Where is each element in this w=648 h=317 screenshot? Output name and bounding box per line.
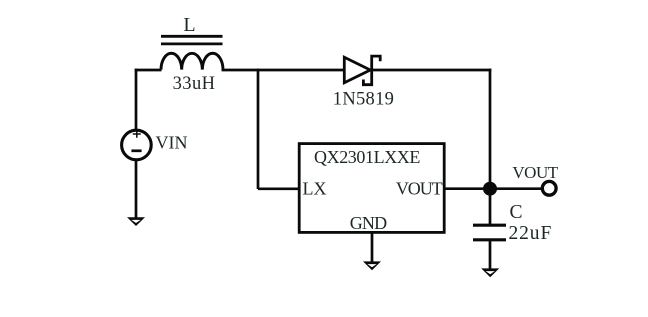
capacitor C bottom plate xyxy=(473,238,506,241)
capacitor C top plate xyxy=(473,224,506,227)
wire switch node vertical xyxy=(257,69,260,189)
diode D1 anode triangle xyxy=(344,57,370,83)
svg-text:33uH: 33uH xyxy=(173,74,216,94)
wire LX stub xyxy=(258,187,300,190)
IC U1 QX2301LXXE box xyxy=(299,144,444,233)
wire VOUT pin to output node xyxy=(444,187,542,190)
svg-text:22uF: 22uF xyxy=(509,223,553,244)
source V1 plus sign xyxy=(133,130,141,137)
diode D1 schottky cathode bar xyxy=(363,56,380,85)
svg-text:1N5819: 1N5819 xyxy=(333,89,394,109)
ground input xyxy=(127,217,145,226)
ground output xyxy=(481,268,499,277)
source V1 minus sign xyxy=(131,149,141,152)
svg-text:VOUT: VOUT xyxy=(396,178,443,198)
wire source to input ground xyxy=(135,160,138,219)
terminal VOUT circle xyxy=(542,181,556,195)
svg-text:VOUT: VOUT xyxy=(512,163,558,182)
svg-text:C: C xyxy=(509,202,522,223)
svg-text:QX2301LXXE: QX2301LXXE xyxy=(314,147,420,167)
wire output rail vertical xyxy=(489,69,492,226)
wire top rail left segment xyxy=(135,69,162,72)
wire top rail right segment xyxy=(372,69,492,72)
svg-text:L: L xyxy=(183,14,195,36)
inductor L coil xyxy=(161,53,223,69)
svg-text:VIN: VIN xyxy=(156,133,188,153)
wire left branch down to source xyxy=(135,69,138,131)
inductor L core line 1 xyxy=(161,35,223,38)
svg-text:GND: GND xyxy=(350,213,387,233)
junction node output xyxy=(483,182,497,196)
svg-text:LX: LX xyxy=(303,178,327,198)
wire capacitor to output ground xyxy=(489,240,492,270)
ground IC xyxy=(363,261,381,270)
wire IC GND pin xyxy=(371,233,374,263)
inductor L core line 2 xyxy=(161,43,223,46)
wire top rail middle segment xyxy=(222,69,346,72)
source V1 circle xyxy=(122,130,152,160)
